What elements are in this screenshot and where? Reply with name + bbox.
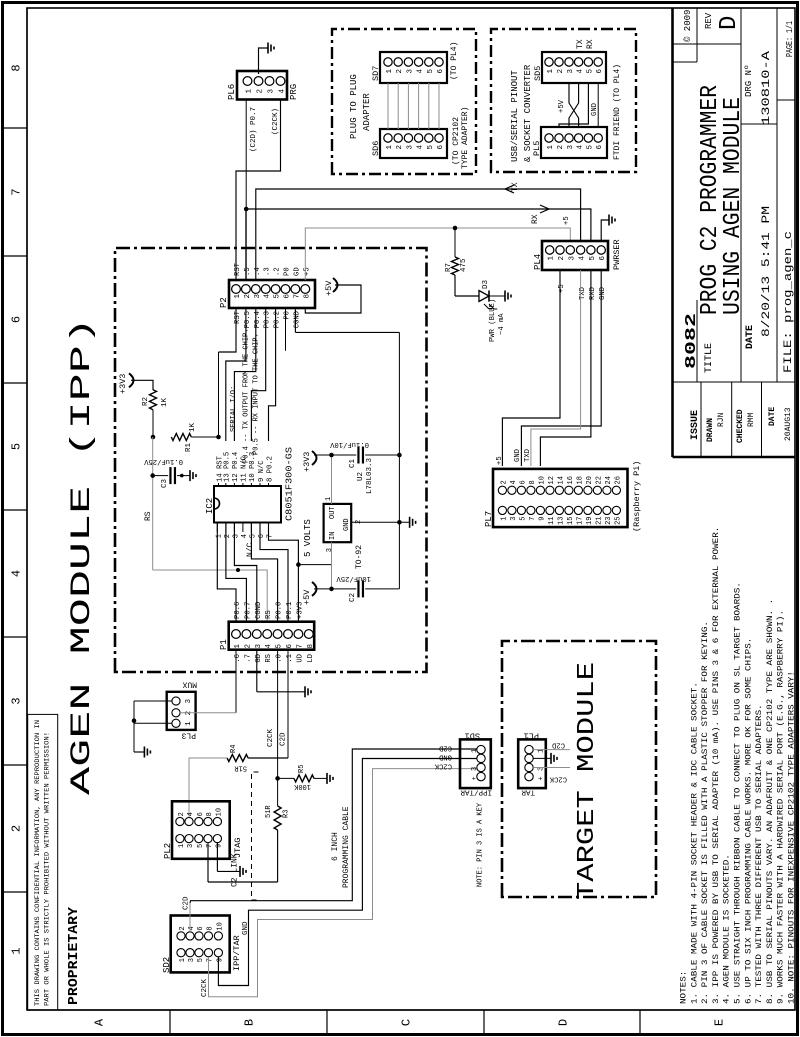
svg-text:6: 6 <box>197 926 205 930</box>
svg-text:11: 11 <box>548 517 556 525</box>
wire TX from P2 pin3 to PL4 pin4 <box>256 189 581 280</box>
zone ticks left strip <box>169 1010 171 1035</box>
svg-text:5: 5 <box>197 844 205 848</box>
node RST/R1 <box>216 435 221 440</box>
connector SD2 <box>171 916 230 973</box>
wire R2 to R1 node <box>152 410 154 437</box>
svg-text:7: 7 <box>293 294 301 299</box>
svg-text:9: 9 <box>215 844 223 848</box>
svg-text:7: 7 <box>267 534 275 538</box>
svg-text:4: 4 <box>265 644 273 649</box>
svg-text:5: 5 <box>10 443 24 450</box>
svg-text:6. UP TO SIX INCH PROGRAMMING: 6. UP TO SIX INCH PROGRAMMING CABLE WORK… <box>744 638 753 1004</box>
svg-text:2: 2 <box>244 294 252 299</box>
svg-text:RXD: RXD <box>589 287 597 300</box>
wire RS to P1 pin4 <box>153 570 268 622</box>
svg-text:GD: GD <box>293 267 301 276</box>
wire P2 pin6 stub <box>285 308 287 351</box>
svg-text:14: 14 <box>557 476 565 484</box>
svg-text:IN: IN <box>329 532 337 540</box>
svg-text:NOTES:: NOTES: <box>680 971 689 1004</box>
svg-text:C1: C1 <box>349 458 357 468</box>
svg-text:C2CK: C2CK <box>267 728 275 747</box>
resistor R5 <box>294 775 314 782</box>
svg-text:3: 3 <box>232 534 240 538</box>
wire R5 to ground <box>314 777 327 779</box>
svg-text:RST: RST <box>234 310 242 324</box>
svg-text:RX: RX <box>531 214 540 224</box>
svg-text:.1: .1 <box>286 654 294 663</box>
svg-text:1: 1 <box>185 721 193 726</box>
svg-text:PART OR WHOLE IS STRICTLY PROH: PART OR WHOLE IS STRICTLY PROHIBITED WIT… <box>44 732 51 1006</box>
ground U2 <box>409 517 411 528</box>
svg-text:P2: P2 <box>219 297 229 308</box>
svg-text:PL4: PL4 <box>533 254 543 270</box>
svg-text:RX: RX <box>586 39 595 49</box>
svg-text:NOTE: PIN 3 IS A KEY: NOTE: PIN 3 IS A KEY <box>477 802 485 887</box>
svg-text:C2 LINK: C2 LINK <box>231 853 240 887</box>
svg-text:R3: R3 <box>283 810 291 818</box>
wire IC2 pin1 to P1 pin1 <box>217 523 236 622</box>
svg-text:1: 1 <box>500 517 508 521</box>
wire C2CK node to R5 <box>278 777 294 779</box>
svg-text:P0.4: P0.4 <box>254 311 262 328</box>
svg-text:C2D: C2D <box>183 896 191 910</box>
svg-text:3: 3 <box>567 69 575 74</box>
svg-text:1K: 1K <box>161 397 169 407</box>
svg-text:6: 6 <box>519 480 527 484</box>
wire +5V loop to P2 pin8 <box>305 285 361 313</box>
svg-text:8: 8 <box>303 294 311 299</box>
svg-text:1: 1 <box>178 844 186 848</box>
svg-text:1: 1 <box>386 145 394 150</box>
svg-text:TO-92: TO-92 <box>355 545 364 569</box>
svg-text:7. TESTED WITH THREE DIFFERENT: 7. TESTED WITH THREE DIFFERENT USB TO SE… <box>755 704 764 1004</box>
svg-text:2: 2 <box>500 480 508 484</box>
svg-text:P0.1: P0.1 <box>286 602 294 619</box>
svg-text:GND: GND <box>514 449 522 462</box>
svg-text:RS: RS <box>265 654 273 663</box>
svg-text:PRG: PRG <box>289 84 299 100</box>
wire +5 node to R7 <box>454 228 456 257</box>
svg-text:13 P0.5: 13 P0.5 <box>224 452 232 482</box>
svg-text:2: 2 <box>557 69 565 74</box>
svg-text:5: 5 <box>276 644 284 649</box>
svg-text:+5: +5 <box>558 284 566 293</box>
title block issue col dividers <box>700 382 702 457</box>
svg-text:8: 8 <box>207 926 215 930</box>
svg-text:(C2CK): (C2CK) <box>272 108 280 135</box>
svg-text:L78L03.3: L78L03.3 <box>366 457 374 494</box>
svg-text:PL5: PL5 <box>532 141 542 156</box>
connector PL4 <box>542 241 608 270</box>
svg-text:PAGE: 1/1: PAGE: 1/1 <box>785 21 795 57</box>
svg-text:(C2D) P0.7: (C2D) P0.7 <box>250 107 258 152</box>
wire R4 to PL2 pin4 <box>189 758 227 817</box>
wire IC2 pin12 to P2 pin3 <box>234 308 255 441</box>
svg-text:R2: R2 <box>142 397 150 406</box>
svg-text:MUX: MUX <box>182 680 197 689</box>
svg-text:P0.0: P0.0 <box>276 602 284 619</box>
svg-text:4: 4 <box>417 69 425 74</box>
wire PL1 pin2 to ground <box>533 757 551 759</box>
wire PL4 pin2 +5 to PL7 pin2 <box>502 270 560 466</box>
svg-text:6: 6 <box>596 145 604 150</box>
svg-text:C: C <box>400 1019 414 1026</box>
resistor R3 <box>274 806 281 830</box>
svg-text:OUT: OUT <box>329 506 337 519</box>
connector PL2 <box>172 801 230 859</box>
svg-text:7: 7 <box>10 188 24 195</box>
svg-text:E: E <box>713 1019 727 1026</box>
resistor R2 <box>150 390 157 410</box>
wire P1 pin1 to PL3 pin2 <box>235 650 237 713</box>
svg-text:4: 4 <box>579 256 587 261</box>
wire PL3 pin2 to P1 pin1 <box>180 712 236 714</box>
wire IC2 pin3 to P1 pin3 <box>234 523 256 622</box>
svg-text:6: 6 <box>258 534 266 538</box>
IC2 left pin stubs and numbers <box>216 523 218 533</box>
wire IC2 pin6 to P1 pin6 <box>260 523 288 622</box>
svg-text:P0.3: P0.3 <box>264 311 272 328</box>
capacitor C1 <box>357 447 359 464</box>
svg-text:(Raspberry Pi): (Raspberry Pi) <box>632 461 642 532</box>
svg-text:3: 3 <box>510 517 518 521</box>
svg-text:P0: P0 <box>284 311 292 320</box>
svg-text:6: 6 <box>596 69 604 74</box>
svg-text:10: 10 <box>215 808 223 816</box>
wire PL6 pin1 C2D to P2 pin2 <box>245 100 247 281</box>
svg-text:1: 1 <box>548 256 556 261</box>
svg-text:P0.6: P0.6 <box>234 602 242 619</box>
svg-text:1: 1 <box>386 69 394 74</box>
svg-text:R7: R7 <box>445 263 453 272</box>
svg-text:6: 6 <box>284 294 292 299</box>
wire R3 to PL2 pin7 <box>277 830 279 882</box>
svg-text:SD7: SD7 <box>371 66 381 81</box>
wire crossover SD5.4 - PL5.3 <box>569 83 579 127</box>
svg-text:C2: C2 <box>349 593 357 602</box>
svg-text:3: 3 <box>268 89 276 94</box>
svg-text:3: 3 <box>254 294 262 299</box>
svg-text:5: 5 <box>589 256 597 261</box>
wire RST pin14 to node <box>218 352 220 439</box>
wire crossover SD5.3 - PL5.4 <box>569 83 579 127</box>
svg-text:~4 mA: ~4 mA <box>498 313 506 335</box>
ground P1 pin3 <box>304 686 306 697</box>
svg-text:IC2: IC2 <box>205 498 215 514</box>
svg-text:9: 9 <box>538 517 546 521</box>
svg-text:3. IPP IS POWERED BY USB TO SE: 3. IPP IS POWERED BY USB TO SERIAL ADAPT… <box>711 527 721 1004</box>
svg-text:6: 6 <box>286 644 294 649</box>
svg-text:TX: TX <box>576 39 585 49</box>
wire PL4 pin6 to ground <box>601 220 609 241</box>
svg-text:8: 8 <box>307 644 315 649</box>
svg-text:RS: RS <box>144 511 153 521</box>
ground R5 <box>326 773 328 784</box>
connector PL3 <box>167 692 196 730</box>
svg-text:D: D <box>716 16 743 30</box>
svg-text:5: 5 <box>427 69 435 74</box>
node +5 / R7 <box>453 226 458 231</box>
title block row line above file row <box>776 8 778 382</box>
svg-text:0.1uF/10V: 0.1uF/10V <box>329 440 369 448</box>
wire RST to P2 pin1 <box>219 308 237 352</box>
svg-text:PL1: PL1 <box>524 731 539 741</box>
resistor R7 <box>452 257 459 275</box>
wire PL4 pin6 GND to PL7 pin6 <box>521 270 601 466</box>
wire C2D from SD2 pin4 to SD1 pin1 <box>189 903 191 931</box>
connector PL5 <box>541 127 607 158</box>
svg-text:+: + <box>538 776 546 780</box>
wire GND from SD2 pin9 to SD1 pin2 <box>218 759 476 986</box>
svg-text:5: 5 <box>249 534 257 538</box>
svg-text:RMM: RMM <box>747 412 756 427</box>
svg-text:2. PIN 3 OF CABLE SOCKET IS FI: 2. PIN 3 OF CABLE SOCKET IS FILLED WITH … <box>701 621 710 1004</box>
svg-text:R1: R1 <box>185 442 193 452</box>
svg-text:U2: U2 <box>357 472 365 481</box>
op IC2 body <box>214 486 281 523</box>
svg-text:1: 1 <box>547 69 555 74</box>
title block copyright cell line <box>673 61 698 63</box>
svg-text:TARGET MODULE: TARGET MODULE <box>574 662 601 900</box>
svg-text:D3: D3 <box>482 279 490 289</box>
svg-text:C2CK: C2CK <box>434 762 452 770</box>
svg-text:P0: P0 <box>284 267 292 276</box>
wire P1 pin3 to ground <box>256 650 258 692</box>
svg-text:GD: GD <box>255 654 263 663</box>
wire IC2 pin5 to P1 pin5 <box>251 523 277 622</box>
svg-text:C3: C3 <box>161 478 169 488</box>
svg-text:3: 3 <box>568 256 576 261</box>
svg-text:1. CABLE MADE WITH 4-PIN SOCKE: 1. CABLE MADE WITH 4-PIN SOCKET HEADER &… <box>690 682 699 1004</box>
svg-text:C8051F300-GS: C8051F300-GS <box>285 447 295 521</box>
svg-text:6: 6 <box>437 69 445 74</box>
ground D3 <box>504 291 506 302</box>
svg-text:PL7: PL7 <box>484 511 494 527</box>
svg-text:1: 1 <box>10 947 24 954</box>
svg-text:.5: .5 <box>244 267 252 276</box>
wire CGND from P2 pin7 <box>294 308 296 332</box>
svg-text:RS: RS <box>265 610 273 619</box>
connector SD6 <box>380 129 447 158</box>
svg-text:UD: UD <box>296 654 304 663</box>
svg-text:TYPE ADAPTER): TYPE ADAPTER) <box>461 107 470 169</box>
TARGET module dashed box <box>502 641 656 897</box>
svg-text:4: 4 <box>264 294 272 299</box>
svg-text:D: D <box>557 1019 571 1026</box>
svg-text:20: 20 <box>586 476 594 484</box>
svg-text:4: 4 <box>187 812 195 816</box>
svg-text:PWRSER: PWRSER <box>612 239 622 270</box>
svg-text:ADAPTER: ADAPTER <box>362 93 372 131</box>
svg-text:130810-A: 130810-A <box>761 50 773 125</box>
svg-text:R4: R4 <box>230 745 238 753</box>
svg-text:PL3: PL3 <box>181 731 196 740</box>
wires SD6 to SD7 <box>387 83 389 129</box>
svg-text:TAR: TAR <box>521 788 535 796</box>
svg-text:DATE: DATE <box>745 325 756 349</box>
svg-text:GND: GND <box>343 518 351 531</box>
svg-text:23: 23 <box>605 517 613 525</box>
ground rail wire <box>398 332 400 589</box>
svg-text:2: 2 <box>396 69 404 74</box>
resistor R1 <box>171 434 191 441</box>
svg-text:6: 6 <box>10 316 24 323</box>
wire C2D to R4 <box>248 757 288 759</box>
svg-text:3: 3 <box>471 767 479 771</box>
svg-text:3: 3 <box>255 644 263 649</box>
svg-text:PL6: PL6 <box>227 84 237 100</box>
svg-text:P1: P1 <box>219 639 229 650</box>
connector P1 <box>229 622 315 650</box>
svg-text:6: 6 <box>599 256 607 261</box>
connector P2 <box>229 280 315 308</box>
svg-text:4: 4 <box>417 145 425 150</box>
svg-text:5 VOLTS: 5 VOLTS <box>303 519 313 557</box>
svg-text:ISSUE: ISSUE <box>690 410 701 440</box>
svg-text:.6: .6 <box>234 654 242 663</box>
plug-to-plug adapter dashed box <box>332 29 476 174</box>
title block row line above date row <box>740 8 742 382</box>
svg-text:C2D: C2D <box>280 732 288 746</box>
svg-text:SD2: SD2 <box>162 957 172 973</box>
svg-text:4: 4 <box>577 145 585 150</box>
AGEN module dashed box <box>115 248 427 672</box>
svg-text:+3V3: +3V3 <box>296 602 304 619</box>
svg-text:25: 25 <box>614 517 622 525</box>
svg-text:8: 8 <box>10 64 24 71</box>
svg-text:1: 1 <box>547 145 555 150</box>
ground PL6 <box>267 43 269 54</box>
svg-text:2: 2 <box>179 926 187 930</box>
title block frame <box>671 8 674 457</box>
ground PL3 <box>143 747 145 758</box>
title block cell line page <box>777 99 795 101</box>
svg-text:9 N/C: 9 N/C <box>258 460 266 482</box>
svg-text:IPP/TAR: IPP/TAR <box>460 788 492 796</box>
wire SD5.5 RX to PL5.2 <box>559 83 588 127</box>
zone ticks top strip <box>2 891 27 893</box>
wire PL4 pin5 RXD to PL7 pin10 <box>540 270 591 466</box>
svg-text:.4: .4 <box>254 267 262 276</box>
svg-text:10. NOTE: PINOUTS FOR INEXPENS: 10. NOTE: PINOUTS FOR INEXPENSIVE CP2102… <box>788 671 797 1004</box>
svg-text:+5: +5 <box>303 267 311 276</box>
svg-text:PWR (BLUE): PWR (BLUE) <box>489 299 497 342</box>
C2 LINK dashed bracket <box>252 772 259 900</box>
ground PL2 pin9 <box>239 866 241 877</box>
svg-text:5: 5 <box>586 69 594 74</box>
svg-text:8/20/13 5:41 PM: 8/20/13 5:41 PM <box>761 206 773 337</box>
svg-text:6: 6 <box>197 812 205 816</box>
svg-text:19: 19 <box>586 517 594 525</box>
resistor R4 <box>227 755 248 762</box>
node C2CK/R5 <box>275 776 280 781</box>
ground PL1 pin2 <box>550 753 552 764</box>
svg-text:© 2009: © 2009 <box>683 10 693 42</box>
svg-text:1: 1 <box>234 644 242 649</box>
wire IC2 pin2 to P1 pin2 <box>226 523 247 622</box>
svg-text:4: 4 <box>510 480 518 484</box>
svg-text:P0.5 -- RX INPUT TO THE CHIP.: P0.5 -- RX INPUT TO THE CHIP. <box>253 333 261 455</box>
svg-text:6 INCH: 6 INCH <box>331 832 340 861</box>
wire U2 IN to +5V rail <box>331 542 333 589</box>
svg-text:DRG Nº: DRG Nº <box>744 65 754 97</box>
svg-text:7: 7 <box>296 644 304 649</box>
svg-text:24: 24 <box>605 476 613 484</box>
wire PL2 pin9 to ground <box>216 843 218 871</box>
svg-text:DRAWN: DRAWN <box>706 418 715 442</box>
svg-text:7: 7 <box>206 844 214 848</box>
svg-text:(TO CP2102: (TO CP2102 <box>452 117 461 165</box>
svg-text:9. WORKS MUCH FASTER WITH A HA: 9. WORKS MUCH FASTER WITH A HARDWIRED SE… <box>776 610 786 1004</box>
wire PL4 pin4 TXD to PL7 pin8 <box>531 270 581 466</box>
IC2 right pin stubs <box>218 483 220 486</box>
svg-text:FTDI FRIEND (TO PL4): FTDI FRIEND (TO PL4) <box>613 64 622 160</box>
svg-text:1K: 1K <box>189 422 197 432</box>
svg-text:2: 2 <box>178 812 186 816</box>
svg-text:51R: 51R <box>265 805 273 818</box>
svg-text:8: 8 <box>206 812 214 816</box>
wire RS run <box>152 437 154 570</box>
svg-text:475: 475 <box>460 258 468 272</box>
svg-text:1: 1 <box>246 89 254 94</box>
svg-text:7: 7 <box>207 958 215 962</box>
svg-text:C2D: C2D <box>439 744 452 752</box>
svg-text:C2CK: C2CK <box>549 775 567 783</box>
svg-text:RST: RST <box>234 262 242 276</box>
svg-text:8: 8 <box>529 480 537 484</box>
svg-text:2: 2 <box>10 825 24 832</box>
svg-text:TITLE: TITLE <box>704 343 715 373</box>
svg-text:12 P0.4: 12 P0.4 <box>232 452 240 482</box>
svg-text:5: 5 <box>519 517 527 521</box>
connector PL1 <box>518 739 546 788</box>
svg-text:3: 3 <box>406 69 414 74</box>
svg-text:17: 17 <box>576 517 584 525</box>
svg-text:B: B <box>243 1019 257 1026</box>
svg-text:.7: .7 <box>244 654 252 663</box>
svg-text:R5: R5 <box>298 765 306 773</box>
svg-text:10uF/25V: 10uF/25V <box>336 574 371 582</box>
svg-text:26: 26 <box>614 476 622 484</box>
svg-text:3: 3 <box>326 548 334 552</box>
svg-text:THIS DRAWING CONTAINS CONFIDEN: THIS DRAWING CONTAINS CONFIDENTIAL INFOR… <box>34 720 41 1006</box>
wire PL6 pin2 to ground <box>259 48 269 74</box>
connector SD1 <box>460 739 491 788</box>
svg-text:16: 16 <box>567 476 575 484</box>
node R2/R1/C3 <box>151 435 156 440</box>
svg-text:P0.2: P0.2 <box>274 311 282 328</box>
svg-text:DATE: DATE <box>768 407 777 426</box>
svg-text:+5: +5 <box>563 216 571 225</box>
wire P1 pin5 C2CK down <box>277 650 279 779</box>
svg-text:.3: .3 <box>264 267 272 276</box>
svg-text:21: 21 <box>595 517 603 525</box>
wire +3V3 rail <box>314 454 356 456</box>
svg-text:USING AGEN MODULE: USING AGEN MODULE <box>720 97 747 315</box>
title block cell line drg <box>741 123 777 125</box>
regulator U2 body <box>324 504 352 542</box>
zone strip top line <box>26 8 28 1010</box>
svg-text:PROPRIETARY: PROPRIETARY <box>66 906 82 1005</box>
svg-text:2: 2 <box>557 145 565 150</box>
svg-text:1: 1 <box>471 749 479 753</box>
svg-text:0.1uF/25V: 0.1uF/25V <box>143 457 183 465</box>
svg-text:SD5: SD5 <box>533 66 543 81</box>
svg-text:GND: GND <box>439 752 452 760</box>
arrow RX <box>540 205 549 213</box>
